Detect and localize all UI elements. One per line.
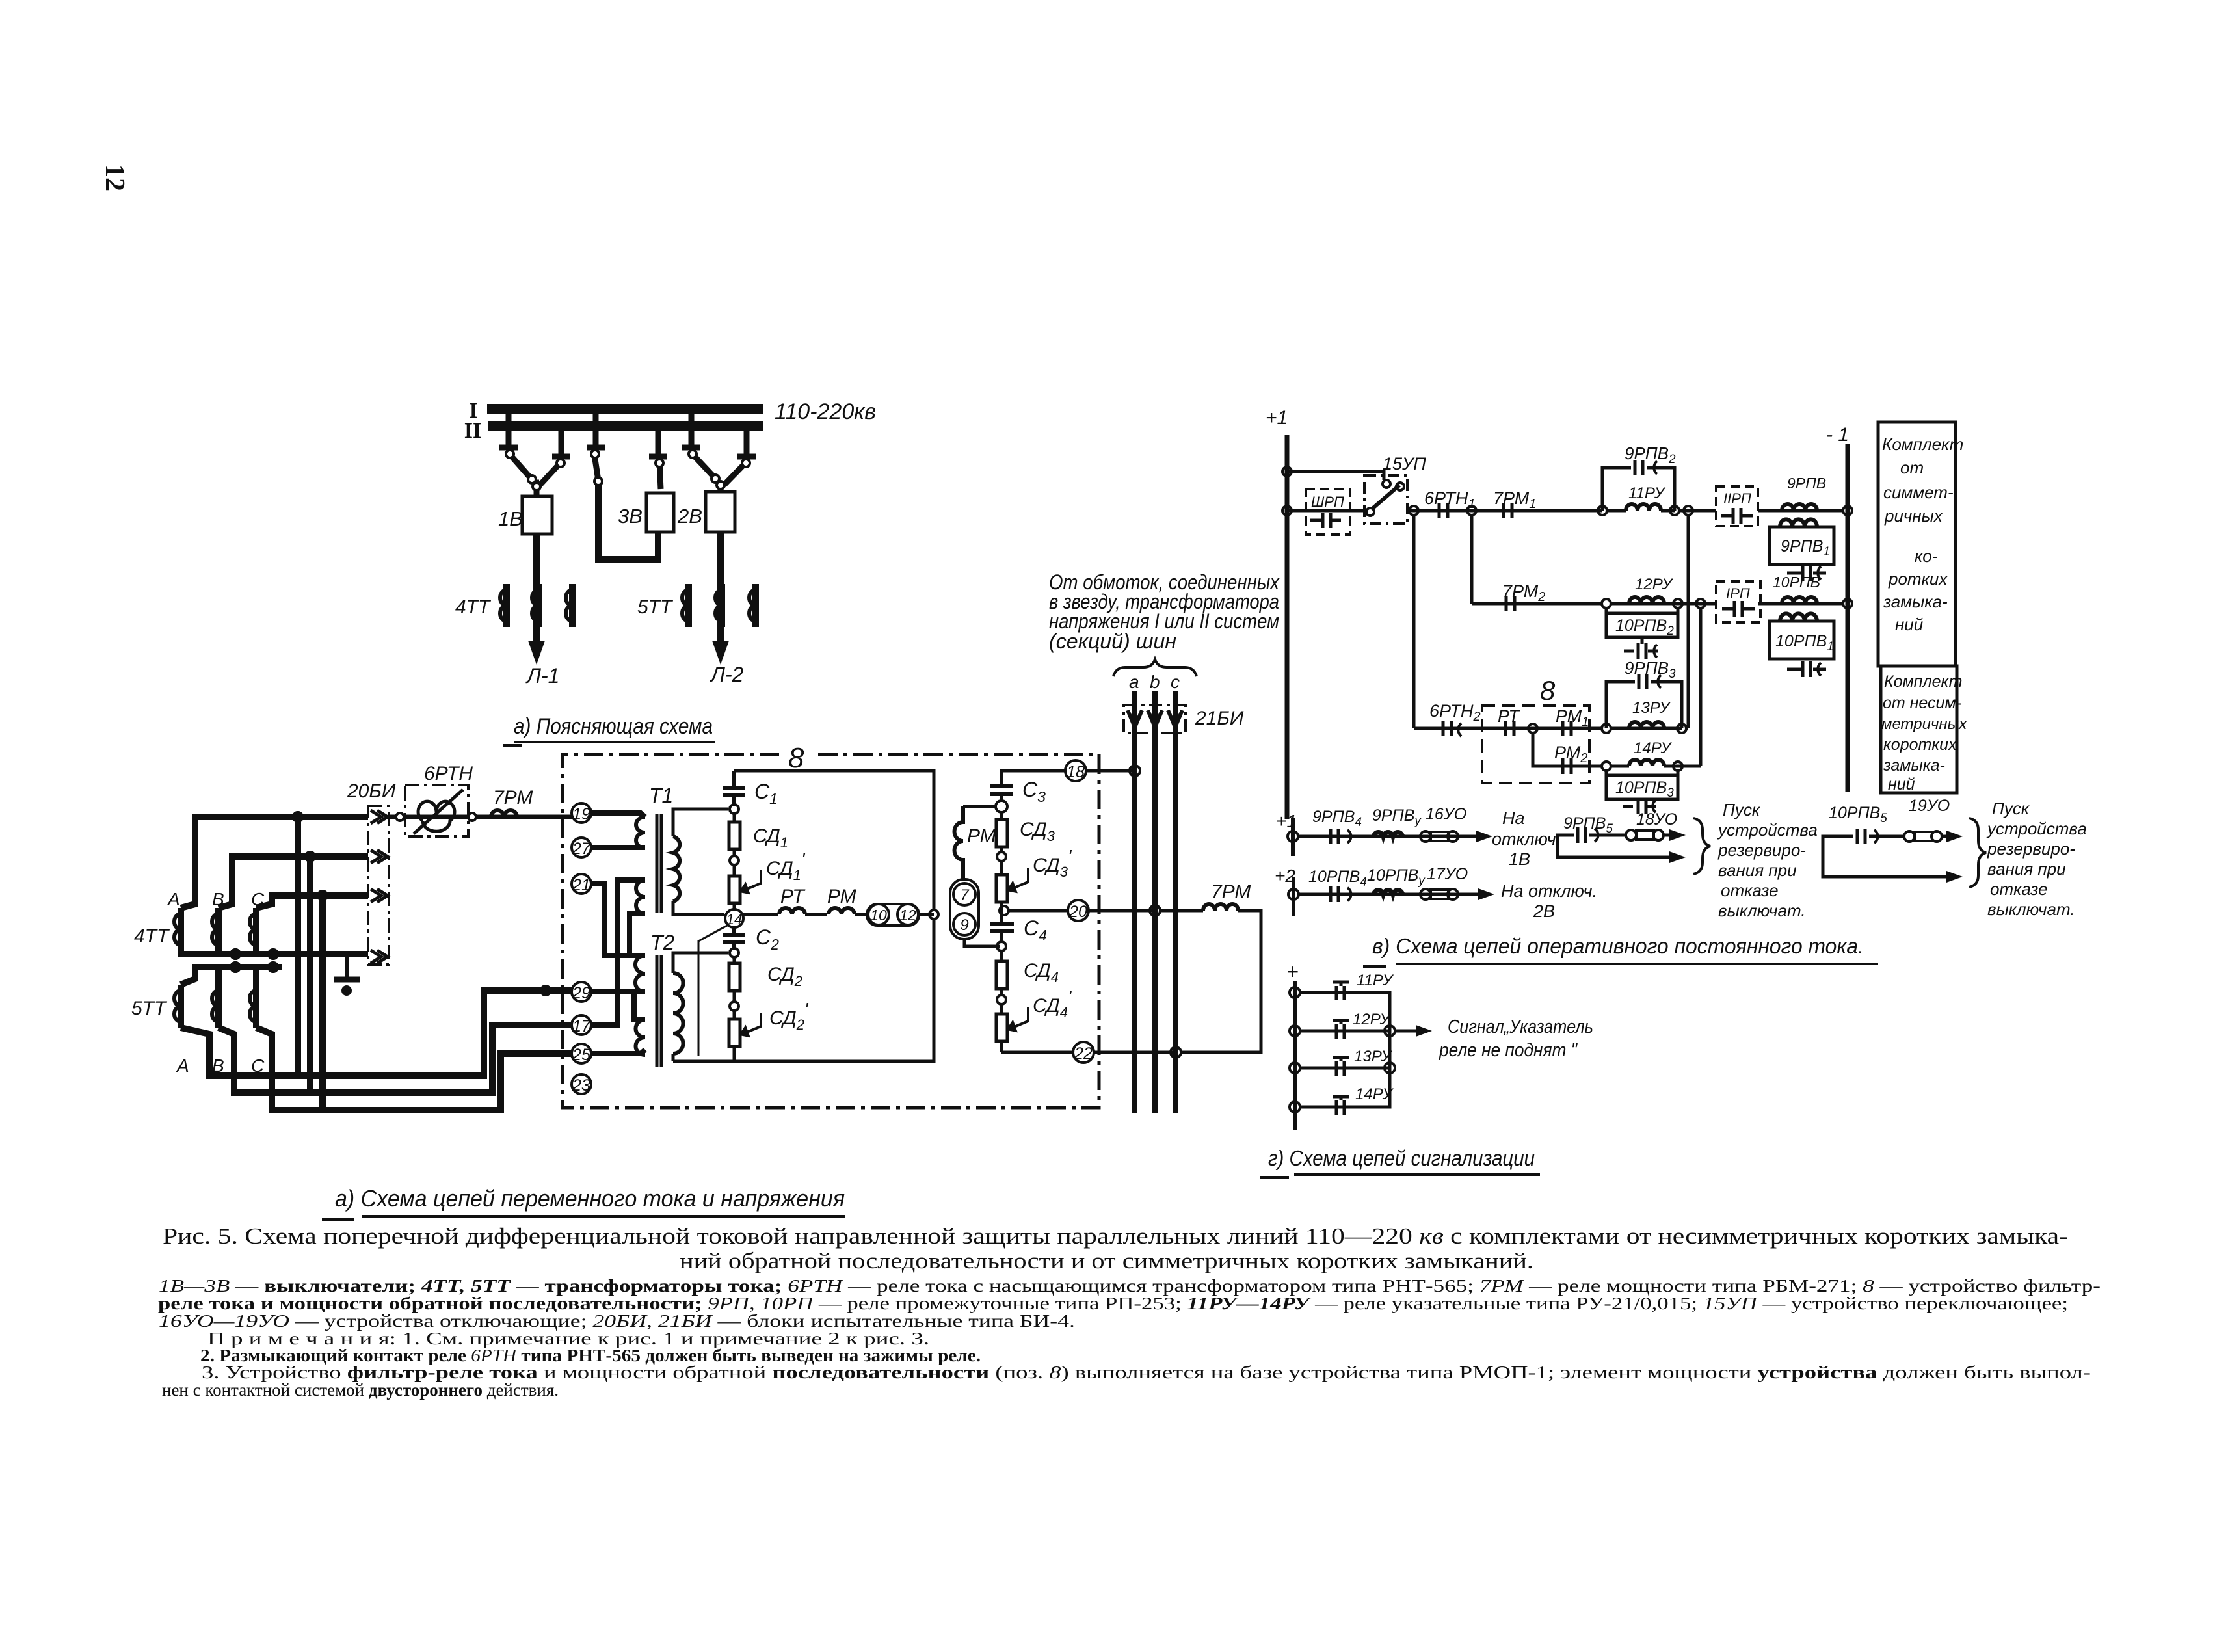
link T1 bottom to wire 21 — [630, 914, 645, 955]
test plug 10 and 12 — [867, 904, 919, 926]
vertical wire from w1 node down — [295, 817, 301, 1076]
terminal 19 — [572, 803, 591, 823]
contact 9RPV5 with loop — [1558, 814, 1677, 857]
svg-text:9: 9 — [960, 916, 968, 934]
svg-text:А: А — [176, 1056, 189, 1076]
transformer T1 primary — [636, 817, 645, 914]
svg-text:вания при: вания при — [1718, 860, 1797, 880]
junction +1 lower — [1288, 831, 1298, 842]
svg-text:РТ: РТ — [780, 886, 806, 907]
junction node w4-1 — [231, 950, 240, 959]
resistor SD2 — [729, 957, 740, 1002]
svg-text:19УО: 19УО — [1909, 797, 1950, 815]
junction on line b — [1150, 905, 1160, 916]
coil 11RU — [1607, 485, 1675, 511]
svg-text:7РМ1: 7РМ1 — [1493, 488, 1536, 511]
capacitor C2 — [723, 927, 745, 948]
transformer T2 secondary — [673, 973, 683, 1054]
wire riser to terminal 17 — [219, 1025, 572, 1093]
rung 11RU — [1300, 972, 1394, 1031]
bus -1 — [1846, 444, 1850, 792]
wire plug to C4 node — [964, 939, 1000, 946]
junction left of 13RU — [1602, 724, 1611, 733]
contact 9RPV4 — [1312, 808, 1362, 844]
svg-text:СД3': СД3' — [1033, 846, 1072, 880]
svg-text:С4: С4 — [1024, 916, 1047, 944]
pointer line from node 14 — [698, 925, 728, 1056]
disconnector blade bay3 right — [656, 459, 663, 489]
brace 1 — [1693, 818, 1710, 874]
ground — [334, 954, 360, 994]
wire riser to terminal 25 — [256, 1028, 572, 1110]
svg-text:6РТН2: 6РТН2 — [1429, 701, 1481, 724]
svg-text:10РПВ1: 10РПВ1 — [1775, 632, 1834, 654]
svg-text:12РУ: 12РУ — [1353, 1011, 1392, 1028]
svg-text:отказе: отказе — [1990, 879, 2048, 899]
device 8 dash-dot border — [563, 754, 1099, 1108]
caption v) dc circuits — [1363, 934, 1878, 966]
junction on line c — [1171, 1047, 1181, 1058]
svg-text:5ТТ: 5ТТ — [637, 596, 674, 618]
junction on +1 bus upper — [1282, 467, 1292, 476]
node after 6RTN1 — [1467, 506, 1476, 515]
node to terminal 20 — [1000, 906, 1009, 915]
svg-text:12: 12 — [99, 164, 129, 191]
junction s4 — [1290, 1102, 1300, 1112]
svg-text:а: а — [1129, 672, 1139, 692]
wire terminal27 to T1 — [591, 845, 645, 850]
junction left of 14RU — [1602, 762, 1611, 771]
svg-text:- 1: - 1 — [1826, 424, 1849, 446]
junction s2 — [1290, 1026, 1300, 1036]
svg-text:метричных: метричных — [1881, 715, 1967, 733]
svg-text:17УО: 17УО — [1427, 865, 1468, 883]
svg-text:b: b — [1150, 672, 1160, 692]
node after 12RU — [1673, 599, 1682, 608]
20BI arrow 4 — [371, 950, 388, 963]
svg-text:8: 8 — [1540, 675, 1556, 706]
svg-text:16УО: 16УО — [1426, 805, 1466, 823]
coil PM — [829, 908, 855, 914]
svg-text:19: 19 — [572, 805, 590, 823]
contact RM2 — [1554, 743, 1587, 774]
measuring loop bottom wire — [673, 920, 934, 1061]
text pusk 1 — [1717, 800, 1818, 920]
junction node on w1 — [293, 812, 302, 821]
wire row1 — [1287, 509, 1602, 513]
contact 6RTN2 — [1429, 701, 1481, 736]
wire row2 — [1472, 602, 1843, 606]
signal bus — [1293, 981, 1297, 1130]
21BI arrow c — [1168, 710, 1182, 727]
svg-text:20: 20 — [1068, 903, 1087, 921]
20BI arrow 3 — [371, 889, 388, 902]
svg-text:9РПВ3: 9РПВ3 — [1625, 658, 1676, 681]
arrow to 2V trip — [1458, 893, 1480, 896]
svg-text:устройства: устройства — [1986, 819, 2087, 838]
svg-text:от: от — [1900, 458, 1924, 477]
wire 22 to line c — [1094, 1051, 1176, 1054]
SECTION-B — [131, 763, 572, 1110]
svg-text:9РПВ4: 9РПВ4 — [1312, 808, 1362, 829]
CT 5TT-B secondary — [212, 985, 219, 1028]
kit box symmetric faults — [1878, 422, 1963, 666]
switching device 15UP — [1364, 454, 1426, 524]
node under C1 — [730, 805, 739, 814]
svg-text:27: 27 — [572, 840, 591, 858]
svg-text:СД4': СД4' — [1033, 987, 1072, 1020]
disconnector tap from bus II bay3 — [649, 431, 667, 457]
relay 9RPV1 block — [1770, 519, 1834, 581]
svg-text:7РМ2: 7РМ2 — [1502, 581, 1545, 604]
svg-text:110-220кв: 110-220кв — [775, 399, 876, 424]
wire to terminal 22 — [1001, 1051, 1073, 1054]
terminal 25 — [572, 1044, 591, 1064]
trip device 19UO — [1904, 797, 1950, 842]
node right of 13RU — [1677, 724, 1686, 733]
terminal 27 — [572, 838, 591, 858]
svg-text:ний обратной последовательност: ний обратной последовательности и от сим… — [680, 1248, 1533, 1273]
bus +1 — [1285, 435, 1290, 819]
svg-text:Пуск: Пуск — [1992, 799, 2030, 818]
svg-text:2В: 2В — [1533, 901, 1555, 921]
svg-text:25: 25 — [572, 1046, 590, 1064]
svg-text:(секций) шин: (секций) шин — [1049, 630, 1176, 653]
node under SD2 — [730, 1002, 739, 1011]
rung 13RU — [1300, 1031, 1393, 1107]
coil 9RPVu — [1372, 806, 1422, 836]
wire down to row3 — [1412, 515, 1416, 728]
SECTION-F — [158, 1223, 2101, 1400]
phase line c — [1173, 691, 1178, 1113]
junction to vertical rail A — [1684, 506, 1693, 515]
coil 7RM right — [1160, 904, 1261, 1052]
transformer T1 core — [657, 814, 661, 913]
svg-text:20БИ: 20БИ — [347, 780, 396, 802]
disconnector blade bay2 right — [724, 459, 750, 485]
coil 13RU — [1629, 699, 1671, 728]
svg-text:18УО: 18УО — [1636, 810, 1677, 829]
vertical wire from w2 node down — [307, 857, 313, 1093]
breaker 2V — [706, 492, 735, 532]
coil 10RPVu — [1367, 866, 1426, 894]
junction node w4-2 — [269, 950, 278, 959]
svg-text:а) Поясняющая схема: а) Поясняющая схема — [514, 714, 713, 739]
terminal 29 — [572, 982, 591, 1002]
svg-text:отказе: отказе — [1721, 881, 1779, 900]
contact RT — [1498, 706, 1520, 736]
potentiometer SD3p — [996, 861, 1028, 909]
svg-text:4ТТ: 4ТТ — [134, 926, 170, 947]
svg-text:А: А — [166, 889, 180, 909]
junction +2 — [1288, 889, 1299, 899]
coil 12RU — [1629, 576, 1674, 604]
svg-text:СД3: СД3 — [1020, 819, 1055, 844]
disconnector tap from bus I bay2 — [682, 414, 700, 447]
svg-text:Л-2: Л-2 — [710, 663, 744, 686]
trip device 17UO — [1420, 865, 1468, 899]
node under C3 — [996, 801, 1007, 812]
wire row +2 — [1299, 893, 1478, 896]
wire to terminal 20 — [1009, 909, 1068, 913]
SECTION-D — [1266, 407, 1967, 819]
feeder line L-1 — [533, 534, 540, 647]
node r1 — [1385, 1026, 1395, 1036]
svg-text:+1: +1 — [1266, 407, 1288, 429]
svg-text:1В—3В — выключатели; 4ТТ, 5ТТ: 1В—3В — выключатели; 4ТТ, 5ТТ — трансфор… — [159, 1276, 2101, 1296]
svg-text:резервиро-: резервиро- — [1987, 839, 2075, 859]
junction s1 — [1290, 987, 1300, 998]
junction node w5-2 — [269, 963, 278, 972]
CT 4TT-C secondary — [250, 908, 256, 951]
svg-text:10: 10 — [870, 907, 887, 924]
svg-text:Рис. 5. Схема поперечной диф: Рис. 5. Схема поперечной дифференциально… — [163, 1223, 2068, 1249]
svg-text:10РПВу: 10РПВу — [1367, 866, 1426, 888]
contact 9RPV2 with loop — [1602, 444, 1676, 511]
node under SD1 — [730, 856, 739, 865]
21BI arrow b — [1148, 710, 1162, 727]
brace 2 — [1969, 818, 1986, 887]
relay 10RPV1 block — [1770, 613, 1834, 677]
svg-text:29: 29 — [572, 984, 590, 1002]
svg-text:9РПВ5: 9РПВ5 — [1563, 814, 1613, 836]
svg-text:На отключ.: На отключ. — [1501, 881, 1597, 901]
transformer T2 core — [657, 955, 661, 1067]
CT 4TT-B secondary — [212, 908, 219, 951]
svg-text:На: На — [1502, 808, 1525, 828]
svg-text:коротких: коротких — [1883, 736, 1957, 754]
CT 5TT phase B — [715, 584, 722, 627]
relay contact IRP — [1716, 581, 1760, 622]
CT 4TT phase A — [500, 584, 507, 627]
svg-text:СД1: СД1 — [753, 825, 788, 851]
svg-text:Т2: Т2 — [650, 931, 675, 954]
svg-text:ний: ний — [1895, 615, 1923, 634]
svg-text:РТ: РТ — [1498, 706, 1520, 726]
wire w3 phase C to test block — [256, 896, 368, 908]
svg-text:Комплект: Комплект — [1884, 673, 1962, 691]
wire 20 to line b — [1089, 909, 1155, 913]
junction node on w3 — [318, 891, 327, 900]
svg-text:14РУ: 14РУ — [1634, 739, 1673, 757]
relay 10RPV3 block — [1606, 771, 1678, 814]
disconnector tap from bus I bay1 — [499, 410, 518, 447]
svg-text:22: 22 — [1074, 1045, 1093, 1063]
node 14 — [725, 909, 743, 927]
measuring loop top wire — [734, 771, 934, 909]
svg-text:9РПВ1: 9РПВ1 — [1781, 537, 1830, 559]
wire RM2 branch — [1533, 733, 1602, 766]
coil 14RU — [1610, 739, 1701, 766]
arrows to brace 1 — [1664, 834, 1673, 837]
disconnector tap from bus II bay2 — [737, 431, 756, 457]
CT 5TT-A secondary — [174, 985, 181, 1028]
wire from 20BI to terminal 19 — [389, 813, 572, 821]
capacitor C3 — [990, 786, 1013, 801]
coil 7RM on wire — [491, 810, 517, 817]
disconnector tap from bus I bay3 — [587, 414, 605, 447]
CT 4TT phase C — [566, 584, 572, 627]
wire riser to terminal 29 — [181, 991, 572, 1076]
wire w2 phase B to test block — [219, 857, 368, 908]
svg-text:Комплект: Комплект — [1882, 434, 1963, 454]
svg-text:вания при: вания при — [1987, 859, 2066, 879]
disconnector tap from bus II bay1 — [552, 431, 570, 457]
bus I — [487, 404, 763, 414]
svg-text:17: 17 — [572, 1017, 591, 1035]
coil PT — [779, 908, 805, 914]
20BI arrow 1 — [371, 810, 388, 823]
bus II — [488, 421, 763, 431]
svg-text:6РТН: 6РТН — [424, 763, 473, 784]
CT 5TT phase A — [682, 584, 689, 627]
transformer T1 secondary — [673, 836, 680, 901]
wire 18 left to C3 — [1001, 771, 1065, 784]
svg-text:с: с — [1171, 672, 1180, 692]
SECTION-A — [455, 399, 876, 745]
device 8 inner dashed box — [1482, 706, 1589, 783]
bus stub +1 lower — [1291, 818, 1295, 856]
terminal 17 — [572, 1015, 591, 1035]
node under SD4 — [997, 995, 1006, 1004]
relay 10RPV2 block — [1606, 608, 1678, 659]
svg-text:18: 18 — [1067, 763, 1085, 781]
contact RM1 — [1556, 706, 1589, 736]
svg-text:ко-: ко- — [1915, 546, 1938, 566]
svg-text:23: 23 — [572, 1076, 590, 1095]
node right of 14RU — [1673, 762, 1682, 771]
wire +1 to switch top — [1287, 472, 1384, 480]
junction node on 29 wire — [541, 986, 550, 995]
wire T1 secondary to C1 node — [673, 809, 728, 836]
resistor SD3 — [996, 812, 1007, 852]
junction s3 — [1290, 1063, 1300, 1073]
svg-text:выключат.: выключат. — [1718, 901, 1806, 920]
junction circles redraw — [231, 812, 550, 995]
terminal 20 — [1068, 900, 1089, 921]
svg-text:15УП: 15УП — [1383, 454, 1426, 473]
junction node w5-1 — [231, 963, 240, 972]
vertical wire from w3 node down — [319, 896, 326, 1110]
wire 18 right to line a — [1086, 769, 1135, 773]
svg-text:СД1': СД1' — [766, 849, 806, 883]
arrow to 1V trip — [1458, 835, 1480, 838]
CT 4TT phase B — [532, 584, 538, 627]
svg-text:ΙΙРП: ΙΙРП — [1723, 490, 1751, 507]
rung 14RU contact — [1333, 1086, 1394, 1115]
test block 21BI — [1124, 705, 1186, 733]
svg-text:С3: С3 — [1022, 778, 1046, 805]
trip device 18UO — [1626, 810, 1677, 840]
svg-text:резервиро-: резервиро- — [1717, 840, 1806, 860]
svg-text:1В: 1В — [1509, 849, 1530, 869]
SECTION-C — [563, 742, 1099, 1108]
svg-text:10РПВ3: 10РПВ3 — [1615, 779, 1674, 800]
contact 10RPV4 — [1308, 868, 1367, 902]
breaker 3V — [646, 493, 674, 532]
svg-text:С1: С1 — [754, 780, 778, 807]
trip device 16UO — [1420, 805, 1466, 842]
svg-text:от несим-: от несим- — [1883, 694, 1961, 712]
contact 7RM2 — [1502, 581, 1545, 611]
caption g) signal circuits — [1260, 1146, 1540, 1177]
svg-text:отключ.: отключ. — [1492, 829, 1561, 849]
tie loop bay3 — [598, 485, 658, 559]
svg-text:выключат.: выключат. — [1987, 899, 2075, 919]
potentiometer SD1p — [729, 865, 761, 909]
svg-text:а) Схема цепей переменного ток: а) Схема цепей переменного тока и напряж… — [335, 1185, 845, 1212]
disconnector blade bay2 left — [689, 450, 719, 483]
svg-text:РМ: РМ — [967, 825, 996, 847]
svg-text:10РПВ: 10РПВ — [1773, 574, 1820, 591]
SECTION-E — [1275, 797, 2087, 966]
junction before 11RU — [1598, 506, 1607, 515]
svg-text:устройства: устройства — [1717, 820, 1818, 840]
relay contact ShRP — [1306, 489, 1350, 535]
brace over abc — [1113, 659, 1197, 676]
test block 20BI — [368, 806, 389, 965]
disconnector blade bay1 left — [506, 450, 536, 483]
capacitor C4 — [990, 909, 1014, 942]
svg-text:IРП: IРП — [1726, 585, 1750, 602]
caption a) ac circuits — [322, 1185, 845, 1219]
svg-text:7РМ: 7РМ — [1211, 881, 1251, 903]
svg-text:13РУ: 13РУ — [1632, 699, 1671, 717]
node above breaker 1V — [533, 483, 540, 496]
junction to vertical rail B — [1696, 599, 1705, 608]
junction on line a — [1130, 766, 1140, 776]
contact 10RPV5 with loop — [1823, 804, 1946, 877]
svg-text:СД2': СД2' — [769, 999, 809, 1033]
arrow L-1 — [528, 641, 545, 665]
svg-text:реле не поднят ": реле не поднят " — [1439, 1040, 1578, 1061]
svg-text:12: 12 — [899, 907, 916, 924]
link 13RU row to rail A — [1686, 727, 1688, 730]
wire T2 secondary to bottom loop — [672, 1054, 675, 1061]
svg-text:реле тока и мощности обратной: реле тока и мощности обратной последоват… — [158, 1294, 2068, 1313]
svg-text:СД4: СД4 — [1024, 960, 1059, 985]
svg-text:С2: С2 — [756, 926, 779, 953]
svg-text:4ТТ: 4ТТ — [455, 596, 492, 618]
wire terminal25 to T2 bottom — [591, 1050, 645, 1054]
relay 6RTN box — [405, 785, 468, 836]
svg-text:9РПВ2: 9РПВ2 — [1625, 444, 1676, 466]
resistor SD4 — [996, 951, 1007, 995]
potentiometer SD2p — [729, 1011, 761, 1061]
contact 7RM1 — [1493, 488, 1536, 518]
20BI arrow 2 — [371, 850, 388, 863]
svg-text:нен с контактной системой: нен с контактной системой двустороннего … — [162, 1380, 559, 1400]
wire terminal21 to T2 — [591, 884, 645, 955]
svg-text:10РПВ5: 10РПВ5 — [1829, 804, 1887, 825]
junction after RT — [1528, 724, 1537, 733]
svg-text:10РПВ2: 10РПВ2 — [1615, 617, 1674, 638]
wire w4 common of 4TT — [181, 951, 368, 954]
svg-text:5ТТ: 5ТТ — [131, 998, 168, 1019]
wire PM to plug 10-12 — [855, 913, 866, 916]
svg-text:3В: 3В — [618, 505, 643, 527]
svg-text:ричных: ричных — [1884, 506, 1943, 526]
junction on -1 bus row1 — [1843, 506, 1852, 515]
junction on +1 bus main — [1282, 506, 1292, 515]
wire row3 — [1414, 727, 1682, 730]
svg-text:Л-1: Л-1 — [525, 664, 559, 687]
svg-text:Пуск: Пуск — [1723, 800, 1761, 819]
capacitor C1 — [723, 771, 745, 805]
wire T2 secondary to C2 node — [673, 953, 728, 973]
svg-text:СД2: СД2 — [767, 964, 802, 989]
CT 5TT phase C — [749, 584, 756, 627]
